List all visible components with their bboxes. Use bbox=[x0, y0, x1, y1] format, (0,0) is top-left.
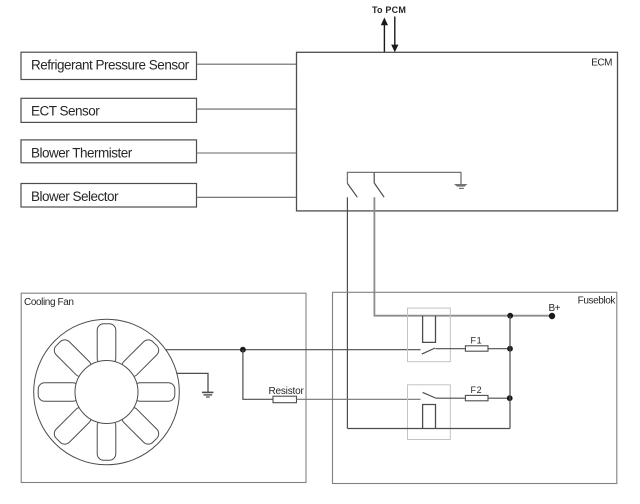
svg-text:F1: F1 bbox=[471, 336, 483, 346]
box ECT Sensor bbox=[21, 98, 197, 122]
svg-text:Cooling Fan: Cooling Fan bbox=[24, 297, 74, 308]
node junction B+ rail top bbox=[507, 313, 513, 319]
wire Blower Thermister to ECM bbox=[197, 152, 297, 154]
arrow up to PCM bbox=[381, 18, 388, 53]
wire switch S2 down and right to B+ rail bbox=[374, 197, 552, 316]
svg-text:To PCM: To PCM bbox=[372, 5, 406, 15]
wire relay K2 to fuse F2 bbox=[436, 397, 466, 399]
Fuseblok enclosure box bbox=[333, 292, 617, 483]
svg-text:ECT Sensor: ECT Sensor bbox=[31, 104, 100, 119]
ground in ECM bbox=[454, 184, 468, 189]
svg-text:Resistor: Resistor bbox=[269, 386, 305, 397]
wire switch S1 down to fuseblok bottom rail bbox=[346, 197, 348, 428]
ground at cooling fan bbox=[202, 392, 213, 397]
wire vertical B+ rail bbox=[509, 316, 511, 429]
relay K2 coil bbox=[423, 405, 436, 429]
wire fuse F2 to B+ rail bbox=[488, 397, 509, 399]
ECM box U1 bbox=[297, 52, 618, 211]
fan motor M1 bbox=[34, 319, 180, 465]
wire Refrigerant Pressure Sensor to ECM bbox=[197, 63, 297, 65]
relay K1 switch blade bbox=[422, 348, 435, 354]
node junction on fan wire bbox=[240, 347, 246, 353]
box Refrigerant Pressure Sensor bbox=[21, 52, 197, 79]
wire ECT Sensor to ECM bbox=[197, 108, 297, 110]
node B+ terminal bbox=[549, 313, 555, 319]
wire relay K1 to fuse F1 bbox=[436, 348, 466, 350]
relay K2 switch blade bbox=[423, 392, 436, 398]
svg-text:ECM: ECM bbox=[591, 58, 612, 69]
relay K2 outline bbox=[408, 385, 451, 440]
svg-text:B+: B+ bbox=[549, 303, 561, 314]
svg-text:Blower Selector: Blower Selector bbox=[31, 189, 119, 204]
resistor R1 bbox=[273, 396, 297, 403]
wire junction down to resistor bbox=[243, 350, 273, 400]
fuse F2 bbox=[465, 395, 488, 400]
wire fuse F1 to B+ rail bbox=[488, 348, 510, 350]
wire Blower Selector to ECM bbox=[197, 196, 297, 198]
fuse F1 bbox=[465, 346, 488, 351]
arrow down from PCM bbox=[391, 17, 398, 53]
box Blower Selector bbox=[21, 184, 197, 208]
Cooling Fan enclosure box bbox=[21, 293, 306, 482]
wire fan to ground bbox=[176, 373, 208, 392]
switch S2 in ECM bbox=[374, 172, 384, 197]
relay K1 outline bbox=[408, 308, 451, 362]
relay K1 coil bbox=[423, 316, 436, 343]
svg-text:Fuseblok: Fuseblok bbox=[578, 296, 617, 307]
svg-text:Refrigerant Pressure Sensor: Refrigerant Pressure Sensor bbox=[31, 58, 190, 73]
node junction F2 at vertical rail bbox=[507, 395, 513, 401]
box Blower Thermister bbox=[21, 140, 197, 163]
wire fan to relay K1 contact bbox=[166, 349, 421, 351]
svg-text:F2: F2 bbox=[471, 385, 483, 395]
wire resistor to relay K2 contact bbox=[297, 398, 421, 400]
switch S1 in ECM bbox=[347, 183, 357, 197]
wire ECM internal horizontal to ground bbox=[347, 172, 461, 184]
wire bottom rail bbox=[347, 428, 510, 430]
node junction F1 at vertical rail bbox=[507, 346, 513, 352]
svg-text:Blower Thermister: Blower Thermister bbox=[31, 146, 133, 161]
